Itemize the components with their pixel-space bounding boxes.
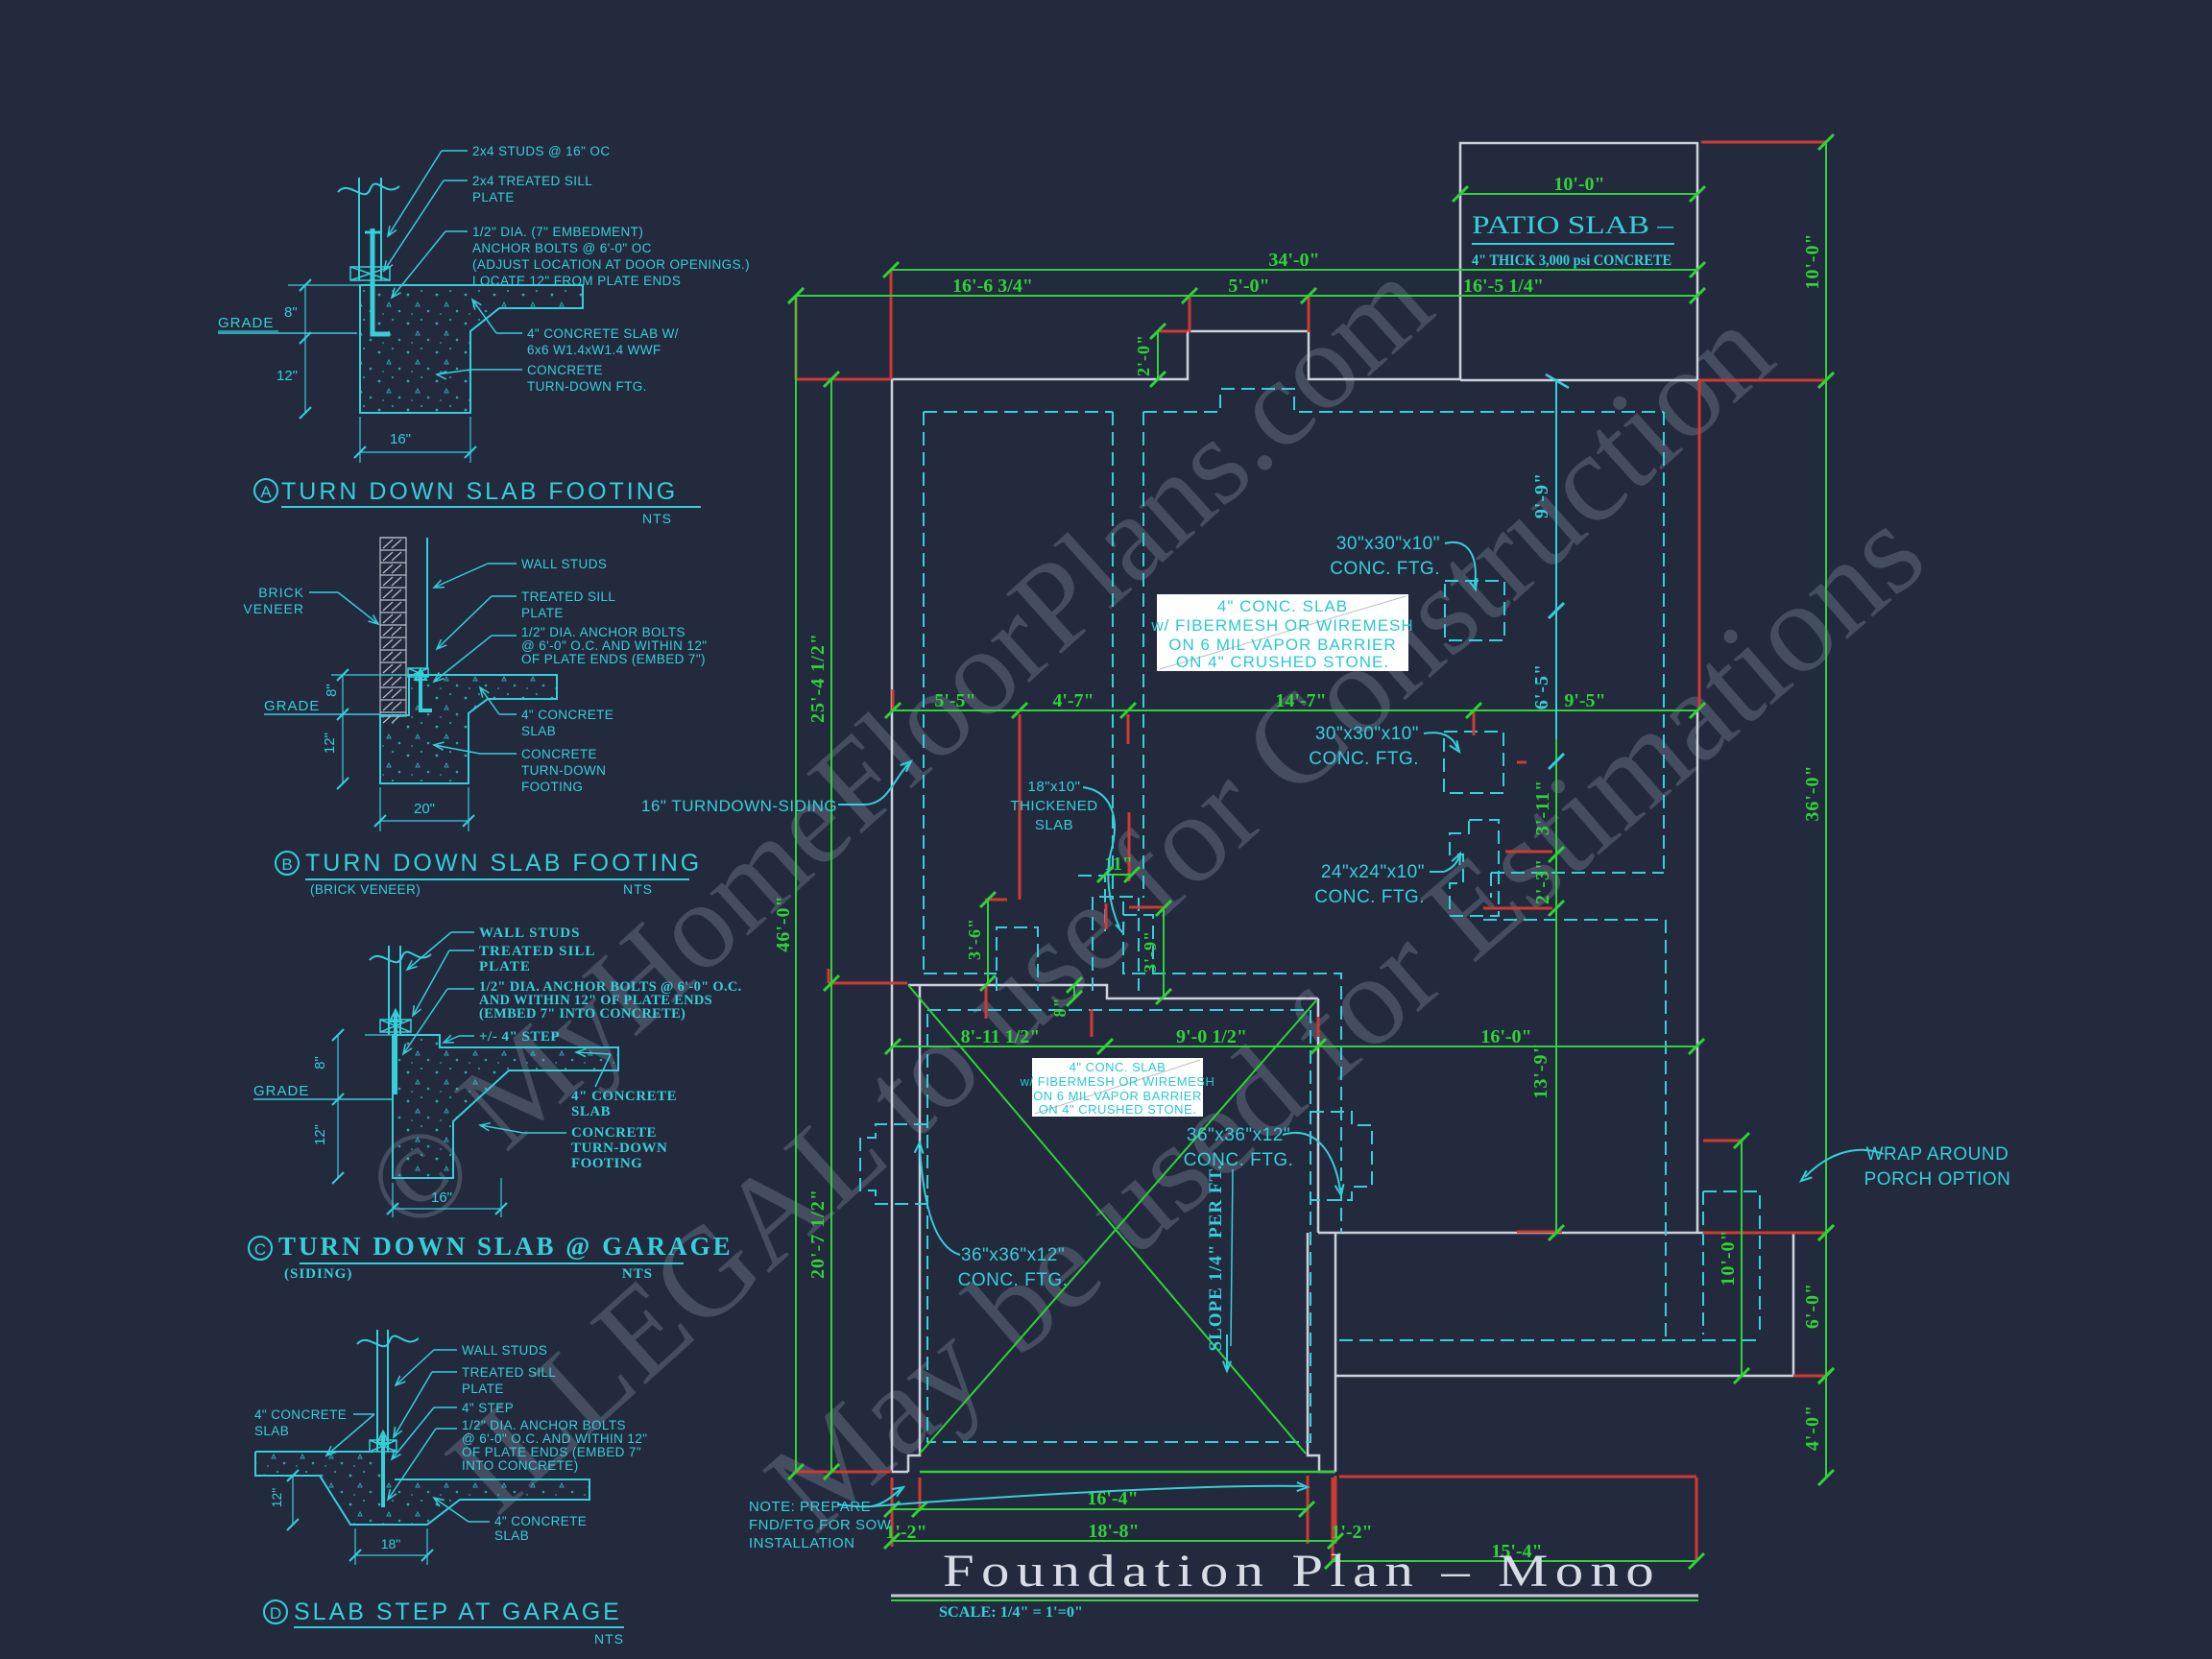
svg-text:4" CONCRETE: 4" CONCRETE: [494, 1514, 587, 1528]
svg-text:w/ FIBERMESH OR WIREMESH: w/ FIBERMESH OR WIREMESH: [1150, 616, 1413, 635]
svg-text:4" CONCRETE: 4" CONCRETE: [571, 1089, 677, 1104]
dim 3'-6": [987, 900, 989, 983]
svg-text:TREATED SILL: TREATED SILL: [521, 589, 615, 604]
svg-text:C: C: [254, 1240, 266, 1259]
svg-text:46'-0": 46'-0": [773, 895, 794, 951]
dashed footing: center vertical: [1142, 412, 1144, 898]
svg-text:SCALE: 1/4" = 1'=0": SCALE: 1/4" = 1'=0": [939, 1604, 1083, 1621]
svg-text:NTS: NTS: [594, 1631, 624, 1647]
wall: patio slab outline: [1460, 143, 1697, 380]
detail A concrete footing outline: [360, 285, 583, 413]
dashed: 24x24 conc ftg notched: [1450, 820, 1499, 916]
dashed: thickened slab tab A: [997, 927, 1038, 991]
dim 16'-6 3/4" / 5'-0" / 16'-5 1/4": [796, 295, 1697, 297]
svg-text:@ 6'-0" O.C. AND WITHIN 12": @ 6'-0" O.C. AND WITHIN 12": [521, 638, 707, 653]
dim interior 5-5/4-7/14-7/9-5: [893, 709, 1697, 711]
dashed: 3-9 small rect: [1123, 915, 1153, 974]
svg-text:12": 12": [312, 1124, 328, 1145]
wall: building top w/ bump: [891, 331, 1460, 379]
svg-text:4'-0": 4'-0": [1802, 1405, 1823, 1451]
garage X diagonals: [908, 985, 1306, 1454]
svg-text:18'-8": 18'-8": [1088, 1521, 1139, 1542]
dashed: wrap upper path: [1123, 902, 1341, 1233]
dashed footing: center top w/ bump: [1143, 389, 1664, 412]
detail D sill + anchor bolt: [370, 1440, 397, 1452]
svg-text:CONC. FTG.: CONC. FTG.: [1330, 559, 1440, 579]
svg-text:ANCHOR BOLTS @ 6'-0" OC: ANCHOR BOLTS @ 6'-0" OC: [472, 241, 652, 255]
dim 10'-0" patio: [1460, 193, 1697, 195]
dashed footing: left room bottom: [924, 973, 997, 974]
detail B title: [276, 852, 299, 875]
detail C wall studs: [388, 946, 390, 1035]
dashed footing: 24x24 zone lines: [1491, 872, 1664, 874]
svg-text:w/ FIBERMESH OR WIREMESH: w/ FIBERMESH OR WIREMESH: [1020, 1074, 1215, 1089]
svg-text:13'-9": 13'-9": [1530, 1042, 1551, 1098]
svg-text:B: B: [281, 855, 292, 874]
dim 8-11 1/2 / 9-0 1/2 / 16-0: [893, 1046, 1696, 1047]
detail D dim 18": [354, 1528, 356, 1565]
svg-text:24"x24"x10": 24"x24"x10": [1321, 862, 1425, 882]
note box 1: 4" conc slab: [1157, 594, 1408, 671]
dashed footing: right lower vertical: [1665, 920, 1667, 1340]
svg-text:4" CONCRETE: 4" CONCRETE: [521, 708, 613, 722]
detail B brick veneer column: [380, 538, 406, 723]
cyan tick on patio bottom: [1546, 374, 1569, 388]
wall: garage inner left: [892, 985, 920, 1472]
svg-text:8": 8": [1050, 998, 1070, 1018]
detail A wall studs: [358, 178, 360, 280]
svg-text:6'-0": 6'-0": [1802, 1283, 1823, 1329]
svg-text:+/- 4" STEP: +/- 4" STEP: [479, 1029, 560, 1045]
svg-text:5'-5": 5'-5": [934, 690, 975, 711]
svg-text:6'-5": 6'-5": [1531, 663, 1552, 709]
detail A grade line: [218, 332, 357, 334]
dim right chain 10/36/6/4: [1825, 142, 1827, 380]
svg-text:TREATED SILL: TREATED SILL: [462, 1365, 556, 1380]
svg-text:5'-0": 5'-0": [1228, 276, 1269, 297]
svg-text:WALL STUDS: WALL STUDS: [521, 557, 607, 571]
svg-text:30"x30"x10": 30"x30"x10": [1315, 724, 1419, 744]
svg-text:Foundation Plan – Mono: Foundation Plan – Mono: [943, 1546, 1661, 1597]
svg-text:WALL STUDS: WALL STUDS: [479, 926, 580, 941]
svg-text:4" STEP: 4" STEP: [462, 1401, 514, 1415]
svg-text:ON 6 MIL VAPOR BARRIER: ON 6 MIL VAPOR BARRIER: [1168, 636, 1396, 654]
svg-text:INSTALLATION: INSTALLATION: [749, 1535, 854, 1551]
svg-text:SLAB: SLAB: [571, 1104, 611, 1119]
svg-text:9'-0 1/2": 9'-0 1/2": [1176, 1026, 1247, 1047]
svg-text:6x6 W1.4xW1.4 WWF: 6x6 W1.4xW1.4 WWF: [527, 343, 661, 357]
detail C sill + anchor bolt: [380, 1020, 411, 1032]
svg-text:12": 12": [276, 368, 298, 384]
svg-text:(EMBED 7" INTO CONCRETE): (EMBED 7" INTO CONCRETE): [479, 1006, 685, 1022]
svg-text:CONCRETE: CONCRETE: [527, 363, 603, 377]
detail A dim 16": [359, 417, 361, 463]
detail C dim 8": [365, 1034, 393, 1036]
svg-text:34'-0": 34'-0": [1268, 250, 1319, 271]
svg-text:PATIO SLAB –: PATIO SLAB –: [1472, 211, 1674, 239]
svg-text:TURN-DOWN: TURN-DOWN: [571, 1141, 667, 1156]
detail D dim 12": [292, 1476, 294, 1525]
svg-text:PLATE: PLATE: [479, 959, 531, 974]
svg-text:THICKENED: THICKENED: [1010, 798, 1097, 814]
note box 2: 4" conc slab garage: [1032, 1058, 1203, 1117]
svg-text:3'-11": 3'-11": [1532, 780, 1553, 835]
svg-text:16" TURNDOWN-SIDING: 16" TURNDOWN-SIDING: [641, 797, 837, 815]
svg-text:OF PLATE ENDS (EMBED 7": OF PLATE ENDS (EMBED 7": [462, 1445, 641, 1459]
svg-text:1/2" DIA. (7" EMBEDMENT): 1/2" DIA. (7" EMBEDMENT): [472, 225, 643, 239]
wall: garage right lower double: [1308, 1233, 1335, 1472]
svg-text:16'-6 3/4": 16'-6 3/4": [952, 276, 1033, 297]
svg-text:FOOTING: FOOTING: [521, 780, 583, 794]
dim 25'-4 1/2" / 20'-7 1/2" vertical: [830, 379, 832, 1472]
svg-text:12": 12": [269, 1488, 284, 1508]
svg-text:SLAB: SLAB: [1035, 817, 1073, 833]
detail C dim 12": [337, 1099, 339, 1178]
svg-text:10'-0": 10'-0": [1718, 1229, 1739, 1286]
svg-text:36'-0": 36'-0": [1802, 764, 1823, 821]
svg-text:OF PLATE ENDS (EMBED 7"): OF PLATE ENDS (EMBED 7"): [521, 652, 706, 666]
svg-text:ON 4" CRUSHED STONE.: ON 4" CRUSHED STONE.: [1039, 1102, 1197, 1117]
svg-text:CONCRETE: CONCRETE: [521, 747, 597, 761]
svg-text:SLAB: SLAB: [254, 1424, 289, 1438]
svg-text:16": 16": [390, 431, 411, 447]
detail B dim 12": [342, 714, 344, 783]
svg-text:4" CONC. SLAB: 4" CONC. SLAB: [1070, 1060, 1166, 1074]
svg-text:ON 4" CRUSHED STONE.: ON 4" CRUSHED STONE.: [1176, 653, 1389, 671]
svg-text:10'-0": 10'-0": [1553, 174, 1604, 195]
svg-text:1/2" DIA. ANCHOR BOLTS: 1/2" DIA. ANCHOR BOLTS: [462, 1418, 626, 1432]
svg-text:3'-9": 3'-9": [1141, 930, 1160, 973]
svg-text:20": 20": [414, 801, 435, 817]
svg-text:TURN-DOWN FTG.: TURN-DOWN FTG.: [527, 379, 647, 394]
svg-text:VENEER: VENEER: [243, 601, 304, 616]
svg-text:3'-6": 3'-6": [965, 918, 984, 960]
dim 34'-0": [891, 269, 1697, 271]
svg-text:CONC. FTG.: CONC. FTG.: [958, 1270, 1069, 1290]
svg-text:8'-11 1/2": 8'-11 1/2": [961, 1026, 1041, 1047]
dashed: thickened slab tab B: [1093, 897, 1139, 991]
dashed footing: right vertical: [1663, 412, 1665, 873]
dim chain x=1621 cyan/green: [1555, 380, 1557, 739]
svg-text:TURN-DOWN: TURN-DOWN: [521, 763, 606, 778]
dim 46'-0" vertical: [795, 296, 797, 1472]
wall: garage top w/ step: [908, 985, 1318, 998]
svg-text:4" THICK 3,000 psi CONCRETE: 4" THICK 3,000 psi CONCRETE: [1472, 252, 1671, 269]
svg-text:10'-0": 10'-0": [1802, 232, 1823, 289]
svg-text:SLAB: SLAB: [494, 1528, 529, 1543]
svg-text:(ADJUST LOCATION AT DOOR OPENI: (ADJUST LOCATION AT DOOR OPENINGS.): [472, 257, 750, 272]
wall: patio bottom edge: [1460, 379, 1697, 382]
svg-text:4" CONCRETE SLAB W/: 4" CONCRETE SLAB W/: [527, 326, 679, 341]
dim 15'-4": [1333, 1560, 1696, 1562]
dim 2'-0": [1157, 331, 1159, 379]
svg-text:TREATED SILL: TREATED SILL: [479, 944, 595, 959]
svg-text:PLATE: PLATE: [472, 190, 515, 204]
svg-text:LOCATE 12" FROM PLATE ENDS: LOCATE 12" FROM PLATE ENDS: [472, 274, 681, 288]
svg-text:25'-4 1/2": 25'-4 1/2": [807, 633, 829, 723]
svg-text:TURN DOWN SLAB @ GARAGE: TURN DOWN SLAB @ GARAGE: [278, 1232, 733, 1261]
svg-text:9'-9": 9'-9": [1531, 472, 1552, 518]
garage door opening line: [920, 1471, 1335, 1474]
dim 3'-9": [1163, 908, 1165, 997]
svg-text:9'-5": 9'-5": [1564, 690, 1605, 711]
dim 8" garage step: [1073, 985, 1075, 998]
dashed: 30x30 conc ftg square 2: [1444, 732, 1503, 793]
dim 10'-0" porch: [1741, 1141, 1743, 1376]
detail A title: [254, 479, 277, 502]
svg-text:4'-7": 4'-7": [1052, 690, 1094, 711]
svg-text:GRADE: GRADE: [253, 1083, 309, 1099]
svg-text:WALL STUDS: WALL STUDS: [462, 1343, 547, 1358]
svg-text:FND/FTG FOR SOW: FND/FTG FOR SOW: [749, 1517, 892, 1533]
svg-text:TURN DOWN SLAB FOOTING: TURN DOWN SLAB FOOTING: [281, 478, 678, 505]
detail B sill + anchor bolt: [408, 668, 428, 677]
svg-text:2x4 TREATED SILL: 2x4 TREATED SILL: [472, 174, 592, 188]
svg-text:FOOTING: FOOTING: [571, 1156, 642, 1171]
svg-text:12": 12": [322, 733, 338, 754]
detail D concrete outline: [255, 1452, 589, 1525]
svg-text:CONC. FTG.: CONC. FTG.: [1184, 1150, 1294, 1170]
dashed: 30x30 conc ftg square 1: [1445, 581, 1504, 640]
dashed: wrap porch option rect: [1703, 1191, 1760, 1334]
svg-text:SLAB STEP AT GARAGE: SLAB STEP AT GARAGE: [294, 1599, 622, 1625]
detail C title: [249, 1237, 272, 1260]
svg-text:30"x30"x10": 30"x30"x10": [1336, 534, 1440, 554]
dashed: wing bottom long: [1339, 1339, 1760, 1341]
svg-text:1'-2": 1'-2": [885, 1522, 926, 1543]
detail B concrete slab/footing: [380, 675, 557, 783]
wall: left edge: [891, 379, 894, 1472]
svg-text:1/2" DIA. ANCHOR BOLTS: 1/2" DIA. ANCHOR BOLTS: [521, 625, 685, 639]
svg-text:CONC. FTG.: CONC. FTG.: [1314, 887, 1425, 907]
svg-text:16'-0": 16'-0": [1480, 1026, 1531, 1047]
dashed: thickened slab tab C: [1078, 876, 1105, 931]
svg-text:8": 8": [284, 304, 298, 321]
dashed: garage right tab: [1310, 1112, 1372, 1200]
wall: garage right upper: [1317, 998, 1320, 1233]
detail A dim 12": [304, 338, 306, 413]
svg-text:(BRICK VENEER): (BRICK VENEER): [310, 882, 421, 897]
dashed: garage interior rect: [927, 1010, 1310, 1442]
svg-text:PLATE: PLATE: [462, 1382, 504, 1396]
svg-text:ON 6 MIL VAPOR BARRIER: ON 6 MIL VAPOR BARRIER: [1033, 1089, 1202, 1103]
svg-text:14'-7": 14'-7": [1275, 690, 1326, 711]
wall: porch top/right: [1697, 1233, 1793, 1376]
svg-text:36"x36"x12": 36"x36"x12": [961, 1245, 1065, 1265]
svg-text:GRADE: GRADE: [264, 698, 320, 714]
dim 11": [1105, 874, 1132, 876]
svg-text:D: D: [270, 1604, 281, 1623]
svg-text:8": 8": [312, 1056, 328, 1070]
svg-text:4" CONCRETE: 4" CONCRETE: [254, 1407, 347, 1422]
wall: wing bottom: [1335, 1375, 1798, 1378]
dashed footing: left room top: [924, 411, 1113, 413]
svg-text:CONCRETE: CONCRETE: [571, 1125, 657, 1141]
svg-text:36"x36"x12": 36"x36"x12": [1187, 1125, 1290, 1145]
svg-text:20'-7 1/2": 20'-7 1/2": [807, 1189, 829, 1279]
svg-text:16": 16": [431, 1190, 452, 1206]
detail B dim 20": [379, 787, 381, 831]
svg-text:2x4 STUDS @ 16" OC: 2x4 STUDS @ 16" OC: [472, 144, 611, 158]
svg-text:CONC. FTG.: CONC. FTG.: [1309, 749, 1419, 769]
svg-text:NTS: NTS: [622, 1266, 653, 1282]
wall: wing top: [1318, 1232, 1697, 1235]
dim 18'-8" w/ 1'-2" labels: [892, 1540, 1335, 1542]
svg-text:PORCH OPTION: PORCH OPTION: [1864, 1169, 2011, 1190]
red extension lines: [795, 296, 798, 379]
detail D wall studs: [376, 1330, 378, 1452]
svg-text:BRICK: BRICK: [258, 585, 304, 600]
svg-text:2'-3": 2'-3": [1532, 858, 1553, 904]
detail C dim 16": [392, 1183, 394, 1217]
detail C concrete outline: [393, 1035, 618, 1178]
svg-text:16'-5 1/4": 16'-5 1/4": [1463, 276, 1544, 297]
svg-text:SLAB: SLAB: [521, 724, 556, 738]
svg-text:2'-0": 2'-0": [1134, 334, 1153, 376]
svg-text:(SIDING): (SIDING): [284, 1266, 352, 1282]
svg-text:TURN DOWN SLAB FOOTING: TURN DOWN SLAB FOOTING: [305, 850, 702, 877]
svg-text:INTO CONCRETE): INTO CONCRETE): [462, 1458, 579, 1473]
svg-text:A: A: [260, 483, 272, 501]
dashed: garage left tab: [860, 1124, 927, 1204]
dashed footing: left room verticals: [923, 412, 925, 974]
detail A sill plate w/ cross: [350, 267, 390, 280]
svg-text:1'-2": 1'-2": [1331, 1522, 1372, 1543]
svg-text:8": 8": [324, 684, 340, 697]
svg-text:18": 18": [381, 1536, 401, 1551]
svg-text:4" CONC. SLAB: 4" CONC. SLAB: [1217, 597, 1348, 615]
svg-text:NTS: NTS: [623, 881, 653, 897]
svg-text:18"x10": 18"x10": [1027, 779, 1080, 795]
detail B dim 8": [331, 674, 409, 676]
detail B wall studs: [426, 538, 428, 669]
dim 16'-4": [892, 1508, 1307, 1510]
wall: right edge white portion: [1696, 710, 1699, 1233]
detail A anchor bolt: [373, 228, 390, 334]
detail D title: [264, 1600, 287, 1623]
detail A dim 8": [288, 284, 360, 286]
svg-text:SLOPE 1/4" PER FT.: SLOPE 1/4" PER FT.: [1206, 1165, 1226, 1352]
svg-text:NTS: NTS: [642, 511, 672, 526]
svg-text:@ 6'-0" O.C. AND WITHIN 12": @ 6'-0" O.C. AND WITHIN 12": [462, 1431, 647, 1446]
svg-text:WRAP AROUND: WRAP AROUND: [1866, 1144, 2009, 1165]
svg-text:PLATE: PLATE: [521, 606, 564, 620]
svg-text:GRADE: GRADE: [218, 315, 274, 331]
